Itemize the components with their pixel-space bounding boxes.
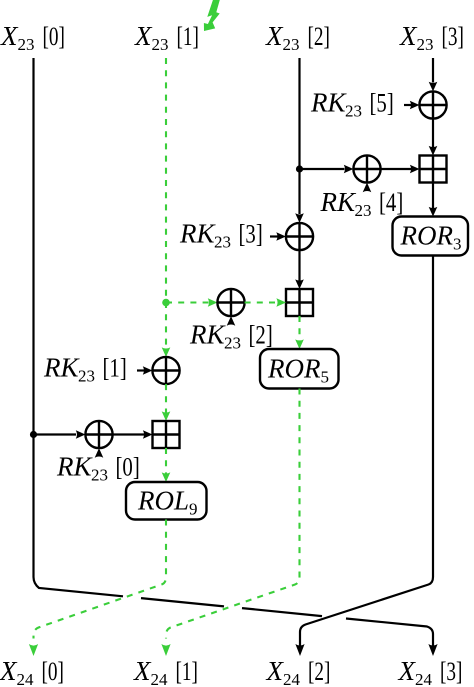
svg-text:X: X bbox=[0, 656, 18, 686]
svg-text:5: 5 bbox=[321, 367, 330, 386]
svg-text:X: X bbox=[398, 656, 417, 686]
wire XOR to mod-add right bbox=[381, 168, 411, 170]
svg-text:ROL: ROL bbox=[137, 485, 189, 515]
mod-add box left branch bbox=[153, 421, 180, 448]
arrowhead into mod-add top bbox=[295, 279, 304, 289]
green wire XOR to mod-add box bbox=[165, 384, 167, 413]
svg-text:23: 23 bbox=[78, 367, 95, 386]
svg-text:RK: RK bbox=[43, 353, 80, 383]
wire mod-add to ROR3 bbox=[432, 183, 434, 209]
svg-text:23: 23 bbox=[355, 201, 372, 220]
svg-text:[4]: [4] bbox=[379, 189, 403, 218]
green junction dot on X23[1] wire bbox=[162, 299, 170, 307]
svg-text:9: 9 bbox=[189, 499, 198, 518]
svg-text:[0]: [0] bbox=[116, 453, 140, 482]
svg-text:23: 23 bbox=[224, 334, 241, 353]
svg-text:RK: RK bbox=[320, 187, 357, 217]
junction dot on X23[0] wire bbox=[30, 431, 37, 438]
node X23[3] label bbox=[399, 21, 464, 54]
XOR gate for RK23[5] bbox=[419, 91, 446, 118]
mod-add box middle branch bbox=[286, 289, 313, 316]
green arrowhead into XOR RK23[1] top bbox=[162, 347, 171, 357]
svg-text:X: X bbox=[133, 656, 152, 686]
green arrowhead into ROL9 top bbox=[162, 472, 171, 482]
green arrowhead into ROR5 top bbox=[295, 339, 304, 349]
arrowhead into mod-add left bbox=[410, 165, 420, 174]
XOR gate for RK23[4] bbox=[353, 155, 380, 182]
svg-text:[3]: [3] bbox=[440, 657, 462, 685]
arrowhead into XOR RK23[0] left bbox=[76, 430, 86, 439]
mod-add box right branch bbox=[420, 156, 447, 183]
junction dot on X23[2] wire bbox=[296, 165, 303, 172]
svg-text:[3]: [3] bbox=[239, 220, 263, 249]
svg-text:RK: RK bbox=[179, 219, 216, 249]
ROL9 rotation box bbox=[126, 482, 207, 520]
wire X23[0] vertical down and diagonal across to X24[3] bbox=[34, 58, 434, 647]
svg-text:RK: RK bbox=[310, 88, 347, 118]
svg-text:ROR: ROR bbox=[267, 353, 321, 383]
svg-text:23: 23 bbox=[91, 466, 108, 485]
green arrowhead into mod-add top bbox=[162, 411, 171, 421]
green arrowhead into X24[0] bbox=[29, 644, 38, 656]
node X24[3] label bbox=[398, 656, 463, 687]
arrow RK23[1] into XOR left bbox=[137, 369, 145, 371]
svg-text:[2]: [2] bbox=[308, 657, 330, 685]
XOR gate for RK23[3] bbox=[286, 223, 313, 250]
svg-text:[3]: [3] bbox=[442, 22, 464, 50]
svg-text:[1]: [1] bbox=[177, 22, 199, 50]
arrow RK23[5] into XOR left bbox=[404, 104, 411, 106]
node X23[0] label bbox=[0, 21, 65, 54]
arrow RK23[0] up into XOR bottom bbox=[95, 448, 104, 458]
arrowhead into X24[2] bbox=[295, 644, 304, 656]
svg-text:ROR: ROR bbox=[400, 221, 454, 251]
green arrowhead into mod-add left bbox=[276, 298, 286, 307]
label RK23[2] bbox=[189, 320, 273, 353]
node X23[2] label bbox=[265, 21, 330, 54]
node X24[2] label bbox=[266, 656, 331, 687]
XOR gate for RK23[1] bbox=[152, 357, 179, 384]
arrowhead into ROR3 top bbox=[429, 207, 438, 217]
svg-text:24: 24 bbox=[151, 670, 169, 687]
arrowhead into mod-add left bbox=[143, 430, 153, 439]
svg-text:23: 23 bbox=[417, 35, 434, 54]
green wire junction to XOR RK23[2] bbox=[166, 301, 209, 303]
green wire ROL9 down to X24[0] bbox=[34, 520, 167, 639]
svg-text:23: 23 bbox=[283, 35, 300, 54]
svg-text:[0]: [0] bbox=[43, 22, 65, 50]
arrow RK23[3] into XOR left bbox=[270, 235, 278, 237]
svg-text:24: 24 bbox=[415, 670, 433, 687]
arrowhead into mod-add top bbox=[429, 146, 438, 156]
svg-text:[0]: [0] bbox=[42, 657, 64, 685]
green wire mod-add to ROL9 bbox=[165, 448, 167, 474]
wire junction to XOR RK23[4] bbox=[300, 168, 345, 170]
arrow RK23[4] up into XOR bottom bbox=[363, 183, 372, 193]
arrowhead into XOR RK23[5] top bbox=[429, 82, 438, 92]
svg-text:X: X bbox=[0, 21, 19, 51]
svg-text:[2]: [2] bbox=[308, 22, 330, 50]
XOR gate for RK23[0] bbox=[85, 421, 112, 448]
svg-text:24: 24 bbox=[283, 670, 301, 687]
wire XOR to mod-add box left branch bbox=[113, 433, 144, 435]
ROR5 rotation box bbox=[260, 349, 339, 389]
fault injection lightning bolt bbox=[204, 0, 220, 31]
node X24[0] label bbox=[0, 656, 64, 687]
svg-text:23: 23 bbox=[152, 35, 169, 54]
XOR gate for RK23[2] bbox=[217, 289, 244, 316]
green wire XOR to mod-add middle bbox=[245, 301, 278, 303]
label RK23[1] bbox=[43, 353, 127, 386]
green arrowhead into XOR RK23[2] left bbox=[208, 298, 218, 307]
svg-text:23: 23 bbox=[345, 102, 362, 121]
svg-text:23: 23 bbox=[18, 35, 35, 54]
wire junction to XOR RK23[0] bbox=[34, 433, 77, 435]
svg-text:RK: RK bbox=[189, 320, 226, 350]
svg-text:[2]: [2] bbox=[249, 321, 273, 350]
green wire ROR5 down to X24[1] bbox=[166, 389, 300, 639]
svg-text:X: X bbox=[399, 21, 418, 51]
label RK23[5] bbox=[310, 88, 394, 121]
node X23[1] label bbox=[134, 21, 199, 54]
svg-text:X: X bbox=[266, 656, 285, 686]
svg-text:24: 24 bbox=[17, 670, 35, 687]
wire X23[2] vertical to XOR RK23[3] bbox=[298, 58, 300, 214]
arrow RK23[2] up into XOR bottom bbox=[227, 316, 236, 326]
wire XOR to mod-add right branch bbox=[432, 119, 434, 147]
ROR3 rotation box bbox=[393, 217, 469, 256]
label RK23[0] bbox=[56, 452, 140, 485]
label RK23[4] bbox=[320, 187, 404, 220]
arrowhead into XOR RK23[4] left bbox=[344, 165, 354, 174]
svg-text:[5]: [5] bbox=[370, 89, 394, 118]
svg-text:X: X bbox=[265, 21, 284, 51]
svg-text:23: 23 bbox=[214, 233, 231, 252]
arrowhead into XOR RK23[3] top bbox=[295, 213, 304, 223]
label RK23[3] bbox=[179, 219, 263, 252]
wire XOR to mod-add middle branch bbox=[298, 250, 300, 280]
arrowhead into X24[3] bbox=[428, 644, 437, 656]
svg-text:X: X bbox=[134, 21, 153, 51]
svg-text:3: 3 bbox=[453, 235, 462, 254]
green wire mod-add to ROR5 bbox=[298, 316, 300, 341]
wire X23[3] vertical to XOR RK23[5] bbox=[432, 58, 434, 83]
svg-text:RK: RK bbox=[56, 452, 93, 482]
node X24[1] label bbox=[133, 656, 198, 687]
green arrowhead into X24[1] bbox=[161, 644, 170, 656]
wire ROR3 down to X24[2] bbox=[300, 256, 433, 647]
wire X23[1] green dashed vertical bbox=[165, 58, 167, 348]
svg-text:[1]: [1] bbox=[103, 354, 127, 383]
svg-text:[1]: [1] bbox=[176, 657, 198, 685]
